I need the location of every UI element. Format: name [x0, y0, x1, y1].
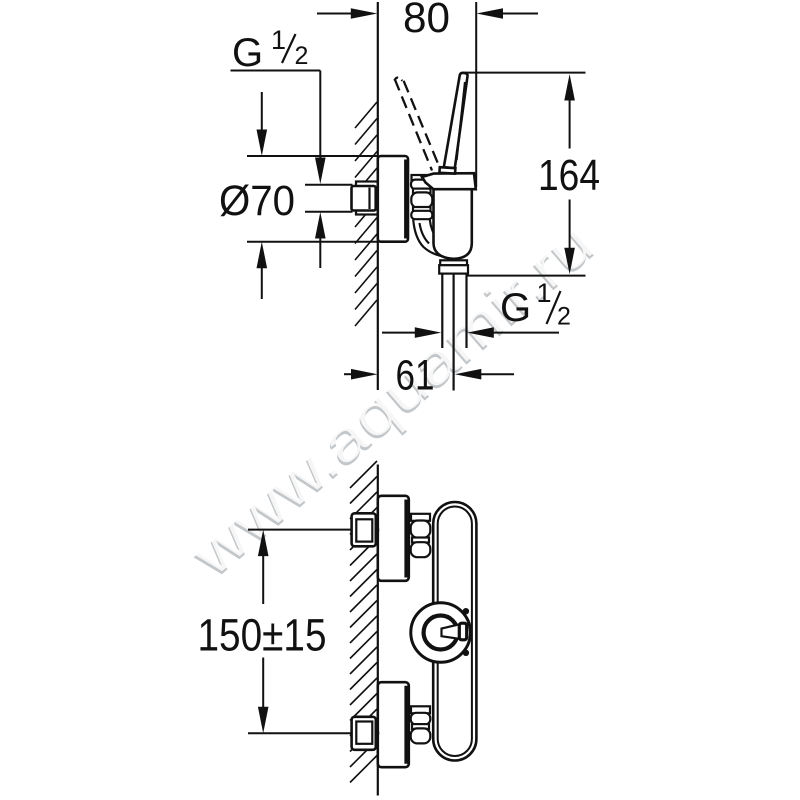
lower square inlet fitting: [373, 723, 379, 743]
svg-text:164: 164: [538, 151, 600, 200]
body capsule outer (bottom view): [433, 502, 476, 761]
inlet fitting collar (behind square): [356, 182, 378, 215]
dimension 61 arrows: [344, 373, 352, 375]
lower wall flange (bottom view): [378, 682, 409, 767]
Ø70 arrows: [261, 92, 263, 131]
wall hatching (bottom view): [350, 461, 377, 783]
svg-text:Ø70: Ø70: [219, 177, 295, 225]
lower ribbed connector: [411, 706, 430, 713]
wall line (bottom view): [377, 465, 379, 796]
svg-text:G: G: [500, 286, 531, 330]
ribbed union connector (top view): [412, 175, 433, 180]
body capsule inner contour: [438, 507, 472, 757]
watermark www.aquamir.ru: [177, 209, 607, 592]
square inlet fitting: [352, 186, 376, 211]
dimension 164 extension lines: [464, 72, 586, 74]
limit stop dots: [463, 608, 469, 614]
lever handle (dashed alternate position): [395, 79, 439, 171]
lower arrow of G1/2 fitting dim: [315, 212, 326, 239]
wall line (top view): [377, 2, 379, 390]
mixer body (top view): [434, 188, 472, 259]
upper wall flange (bottom view): [378, 496, 409, 581]
upper square inlet fitting: [373, 520, 379, 540]
svg-text:G: G: [232, 31, 263, 75]
lever base: [439, 167, 455, 173]
dimension extension line x=476 (80 dim): [475, 2, 477, 187]
control dial inner circle: [424, 616, 458, 650]
upper ribbed connector: [411, 514, 430, 521]
outlet nut band 1: [440, 260, 467, 265]
svg-text:80: 80: [403, 0, 450, 42]
curved supply tube below connector: [413, 220, 441, 257]
dimension 164 line and arrows: [564, 74, 575, 101]
dimension 150±15 line and arrows: [258, 530, 269, 557]
svg-text:61: 61: [396, 352, 435, 400]
svg-text:150±15: 150±15: [198, 610, 327, 661]
leader line down to fitting: [319, 71, 321, 159]
dimension 80 arrows: [317, 13, 352, 15]
wall flange / escutcheon (top view): [378, 156, 408, 242]
svg-text:2: 2: [557, 303, 571, 331]
leader underline for G 1/2: [231, 70, 321, 72]
cartridge cap (top view): [422, 173, 476, 189]
svg-text:2: 2: [295, 42, 309, 70]
outlet nut band 2: [439, 265, 468, 273]
hose centre line / 61 extension: [453, 274, 455, 391]
wall hatching (top view): [355, 102, 377, 326]
extension lines of fitting dim: [305, 184, 353, 186]
control dial outer circle: [411, 603, 471, 663]
dimension Ø70 extension lines: [247, 155, 378, 157]
shower hose: [441, 274, 443, 349]
svg-text:1: 1: [271, 25, 286, 55]
svg-text:1: 1: [537, 278, 552, 308]
dimension 150±15 extension lines: [248, 529, 351, 531]
lever handle (solid position): [444, 73, 468, 168]
hose G1/2 dimension arrows: [382, 332, 416, 334]
lever end view: [442, 624, 460, 639]
